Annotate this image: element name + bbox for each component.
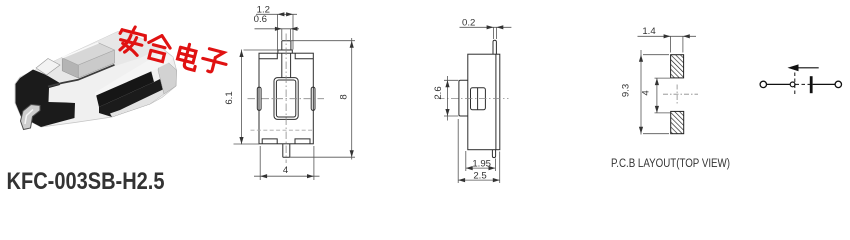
dim 9.3 line (640, 50, 642, 135)
dim 0.6 line (255, 28, 300, 30)
front view bottom stem (283, 144, 290, 157)
side view bottom pin (492, 150, 495, 158)
schematic wire right (813, 83, 835, 85)
arrows 2.6 (445, 80, 449, 87)
watermark char 安 (116, 24, 148, 57)
side view centerline (437, 98, 509, 100)
side view dimensions (444, 27, 511, 183)
dim 1.95 ext lines (466, 151, 496, 171)
dim 8 ext bottom (290, 156, 355, 158)
photo cover left tab (36, 59, 60, 76)
dim 0.6 ext lines (282, 29, 291, 40)
arrows 6.1 (239, 50, 243, 57)
dim 8 line (351, 38, 353, 160)
front view bottom notch left (262, 139, 277, 144)
photo base right black window (96, 71, 154, 108)
svg-text:9.3: 9.3 (621, 84, 632, 97)
arrows 0.2 (487, 25, 494, 29)
side view body outline (468, 54, 500, 150)
arrows 0.6 (275, 27, 282, 31)
watermark char 子 (200, 48, 229, 76)
photo base left black (16, 70, 76, 128)
pcb pad bottom (671, 111, 684, 133)
schematic actuation arrow (798, 67, 819, 69)
side view seam line (495, 54, 497, 150)
dim 0.2 ext lines (494, 27, 497, 39)
schematic dashed link to bar (796, 83, 811, 85)
svg-text:6.1: 6.1 (224, 91, 235, 104)
schematic actuator dashed vertical (794, 73, 796, 96)
front view hidden seam line (251, 129, 314, 131)
dim 2.6 line (447, 76, 449, 121)
svg-text:2.6: 2.6 (433, 86, 444, 99)
photo keycap front face (62, 58, 78, 78)
watermark char 电 (176, 42, 200, 70)
arrows 9.3 (639, 55, 643, 62)
svg-text:2.5: 2.5 (473, 170, 486, 181)
schematic wire left (767, 83, 791, 85)
photo keycap top face (62, 43, 114, 65)
dim 6.1 line (241, 50, 243, 145)
arrows 4 pcb (655, 78, 659, 85)
photo keycap top highlight (62, 43, 98, 58)
front view button outer (274, 78, 298, 120)
arrows 4 (260, 174, 267, 178)
dim 6.1 ext top (244, 49, 278, 51)
front view body outline (259, 53, 313, 144)
front view centerline vertical (285, 34, 287, 164)
side view button divider (477, 88, 479, 110)
arrows 1.2 (278, 12, 285, 16)
front view cover inner top line right (295, 53, 313, 59)
pcb crosshair vertical (676, 85, 678, 105)
dim 1.95 line (466, 167, 496, 169)
svg-text:1.95: 1.95 (472, 159, 491, 170)
arrows 1.4 (664, 34, 671, 38)
dim 1.4 line (638, 35, 697, 37)
dim 2.6 ext lines (444, 80, 458, 116)
front view plunger inner lines (282, 53, 291, 77)
front view side lug left (257, 87, 261, 110)
front view side lug right (311, 87, 315, 110)
dim 4 pcb ext lines (655, 78, 671, 113)
pcb crosshair horizontal (663, 93, 698, 95)
dim 1.4 ext lines (671, 36, 683, 52)
dim 4 ext lines (260, 146, 314, 180)
schematic movable contact bar (810, 76, 813, 93)
svg-text:0.2: 0.2 (462, 17, 475, 28)
dim 0.2 line (460, 26, 512, 28)
dim 1.2 ext lines (278, 14, 294, 49)
svg-text:4: 4 (641, 90, 652, 96)
watermark char 合 (145, 33, 173, 63)
front view button inner (276, 80, 295, 117)
front view centerline horizontal (248, 98, 325, 100)
front view bottom notch right (295, 139, 310, 144)
photo base right black lower (99, 76, 166, 117)
pcb pad top (671, 55, 684, 78)
dim 2.5 line (458, 179, 500, 181)
photo cover shading (20, 32, 162, 88)
front view plunger tip (282, 41, 291, 50)
svg-text:P.C.B LAYOUT(TOP VIEW): P.C.B LAYOUT(TOP VIEW) (611, 156, 730, 170)
dim 6.1 ext bottom (234, 143, 260, 145)
side view top pin (493, 40, 496, 54)
svg-text:8: 8 (339, 94, 350, 99)
photo right end face (158, 57, 177, 94)
dim 4 line (254, 175, 320, 177)
side view plunger (459, 80, 468, 116)
front view plunger collar (278, 50, 292, 53)
svg-text:0.6: 0.6 (254, 14, 267, 25)
arrows 1.95 (466, 166, 473, 170)
svg-text:4: 4 (283, 165, 289, 176)
dim 2.5 ext lines (458, 119, 500, 183)
front view cover inner top line left (259, 53, 277, 59)
dim 9.3 ext lines (643, 55, 669, 134)
photo cover front edge sliver (95, 52, 173, 96)
svg-text:KFC-003SB-H2.5: KFC-003SB-H2.5 (7, 168, 165, 194)
photo terminal pin bottom-left (21, 105, 41, 130)
photo pin highlight (25, 110, 33, 125)
dim 8 ext top (291, 40, 355, 42)
svg-text:1.4: 1.4 (642, 26, 656, 37)
schematic contact circle (790, 82, 795, 87)
arrows 8 (350, 41, 354, 48)
side view button profile (471, 88, 486, 110)
photo slot shadow under keycap (48, 65, 115, 87)
photo right bottom metal feet (110, 88, 166, 117)
photo keycap right face (78, 50, 114, 78)
schematic terminal 2 circle (835, 81, 841, 87)
photo silhouette (metal cover body) (15, 32, 177, 128)
schematic terminal 1 circle (760, 81, 766, 87)
dim 4 pcb line (656, 78, 658, 113)
dim 1.2 line (256, 13, 297, 15)
arrows 2.5 (458, 178, 465, 182)
